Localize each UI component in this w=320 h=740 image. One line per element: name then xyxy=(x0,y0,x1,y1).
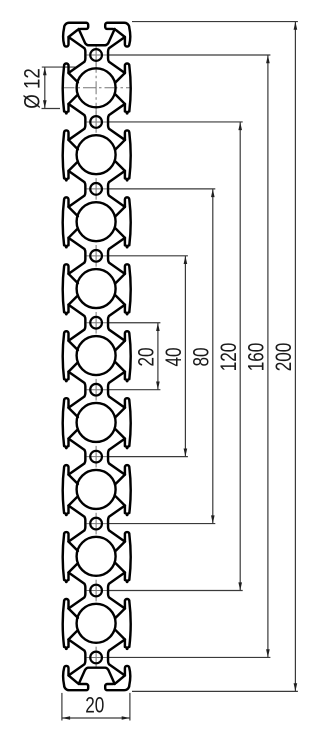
svg-text:20: 20 xyxy=(135,347,160,366)
svg-text:40: 40 xyxy=(162,347,187,366)
svg-text:20: 20 xyxy=(85,694,104,719)
svg-text:Ø 12: Ø 12 xyxy=(21,68,45,109)
svg-text:80: 80 xyxy=(189,347,214,366)
svg-text:160: 160 xyxy=(245,343,270,372)
svg-text:120: 120 xyxy=(217,343,242,372)
svg-text:200: 200 xyxy=(272,343,297,372)
